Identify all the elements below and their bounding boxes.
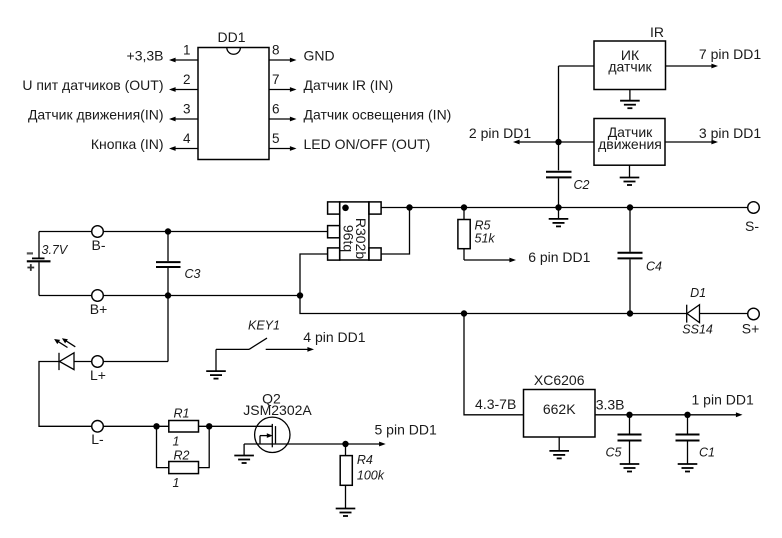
svg-text:R5: R5: [475, 219, 491, 233]
ground under IR sensor: [620, 90, 640, 109]
wire L- to R1: [103, 425, 169, 427]
ground at Q2: [234, 444, 254, 463]
svg-text:+3,3В: +3,3В: [127, 48, 164, 64]
svg-text:7: 7: [272, 72, 280, 87]
svg-text:96tq: 96tq: [341, 225, 357, 252]
transistor Q2: [255, 417, 290, 452]
ground under C5: [620, 464, 640, 472]
pin 6 wire of DD1: [269, 117, 297, 122]
chip U1 R302b body: [328, 202, 382, 260]
led HL1: [59, 353, 74, 370]
pin 8 wire of DD1: [269, 58, 297, 63]
svg-text:1 pin DD1: 1 pin DD1: [692, 392, 754, 408]
svg-text:L-: L-: [91, 431, 104, 447]
svg-text:3.7V: 3.7V: [42, 243, 69, 257]
wire top bus to S-: [381, 207, 748, 209]
svg-text:6: 6: [272, 102, 280, 117]
junction lower bus XC input: [461, 310, 467, 316]
svg-text:IR: IR: [650, 24, 664, 40]
junction C2 line: [555, 139, 561, 145]
pin 1 wire of DD1: [169, 58, 198, 63]
svg-text:R4: R4: [357, 453, 373, 467]
ground under R4: [336, 509, 356, 517]
svg-text:L+: L+: [90, 367, 106, 383]
svg-text:датчик: датчик: [608, 59, 652, 75]
wire battery to B-: [39, 231, 92, 233]
wire L+ to C3 vertical: [103, 361, 168, 363]
junction B+ bus C3: [165, 292, 171, 298]
svg-text:5: 5: [272, 131, 280, 146]
svg-text:1: 1: [173, 476, 180, 490]
svg-text:C5: C5: [606, 446, 622, 460]
terminal B-: [92, 226, 104, 238]
capacitor C4: [618, 208, 643, 314]
svg-text:D1: D1: [690, 286, 706, 300]
pin 1 dot of R302b: [342, 205, 349, 212]
wire C2 vertical: [558, 66, 560, 170]
svg-text:SS14: SS14: [682, 323, 713, 337]
label battery minus: [27, 252, 33, 254]
wire LED anode to L+: [74, 361, 92, 363]
svg-text:движения: движения: [598, 136, 662, 152]
resistor R4: [340, 444, 352, 509]
led light arrow 2: [62, 338, 75, 347]
resistor R1: [169, 421, 199, 433]
svg-text:KEY1: KEY1: [248, 319, 280, 333]
svg-text:R2: R2: [174, 449, 190, 463]
wire Q2 to 5 pin DD1: [346, 442, 386, 447]
junction B+ bus x299: [297, 292, 303, 298]
svg-text:S-: S-: [745, 218, 759, 234]
svg-text:3.3В: 3.3В: [596, 397, 625, 413]
wire motion sensor to 2 pin DD1: [513, 140, 594, 145]
wire battery to B+: [39, 295, 92, 297]
wire XC output to 1 pin DD1: [595, 412, 743, 417]
ground on top bus: [549, 208, 569, 227]
block IR sensor: [594, 41, 666, 90]
svg-text:2 pin DD1: 2 pin DD1: [469, 125, 531, 141]
svg-text:C4: C4: [646, 260, 662, 274]
wire R5 to 6 pin DD1: [464, 258, 516, 263]
wire IR sensor to 7 pin DD1: [666, 64, 719, 69]
ground under KEY1: [206, 349, 226, 378]
junction lower bus C4: [627, 310, 633, 316]
label battery plus: [27, 264, 34, 271]
resistor R2: [169, 462, 199, 474]
wire C3 to L+ vertical: [167, 296, 169, 362]
ground under C1: [678, 464, 698, 472]
junction B- bus C3: [165, 228, 171, 234]
svg-text:DD1: DD1: [217, 29, 245, 45]
ground under motion sensor: [620, 165, 640, 185]
block motion sensor: [594, 119, 665, 166]
svg-text:XC6206: XC6206: [534, 372, 585, 388]
junction top bus C2: [555, 204, 561, 210]
svg-text:4 pin DD1: 4 pin DD1: [303, 329, 365, 345]
junction top bus R5: [461, 204, 467, 210]
wire R302b left-bottom pad link: [300, 254, 328, 296]
svg-text:LED ON/OFF (OUT): LED ON/OFF (OUT): [304, 136, 431, 152]
terminal L+: [92, 356, 104, 368]
pin 5 wire of DD1: [269, 146, 297, 151]
wire B+ bus: [103, 295, 300, 297]
wire R2 left leg: [157, 426, 169, 467]
svg-text:Датчик движения(IN): Датчик движения(IN): [28, 107, 164, 123]
svg-text:JSM2302A: JSM2302A: [243, 402, 312, 418]
pin 3 wire of DD1: [169, 117, 198, 122]
terminal S+: [748, 308, 760, 320]
svg-text:B-: B-: [92, 237, 106, 253]
svg-text:U пит датчиков (OUT): U пит датчиков (OUT): [22, 77, 163, 93]
svg-text:Датчик IR (IN): Датчик IR (IN): [304, 77, 394, 93]
svg-text:100k: 100k: [357, 468, 385, 482]
label R302b 96tq: [341, 218, 370, 259]
svg-text:R1: R1: [174, 407, 190, 421]
junction top bus C4: [627, 204, 633, 210]
terminal L-: [92, 421, 104, 433]
junction XC output C5: [626, 412, 632, 418]
wire B+ junction down to lower bus: [300, 296, 464, 314]
svg-text:6 pin DD1: 6 pin DD1: [528, 249, 590, 265]
svg-text:3 pin DD1: 3 pin DD1: [699, 125, 761, 141]
svg-text:B+: B+: [90, 301, 108, 317]
wire XC input vertical: [464, 314, 524, 415]
junction XC output C1: [684, 412, 690, 418]
svg-text:Кнопка (IN): Кнопка (IN): [91, 136, 164, 152]
svg-text:4: 4: [183, 131, 191, 146]
junction Q2 output: [342, 441, 348, 447]
pin 2 wire of DD1: [169, 87, 198, 92]
svg-text:51k: 51k: [475, 232, 496, 246]
terminal S-: [748, 202, 760, 214]
svg-text:C1: C1: [699, 446, 715, 460]
ic DD1 body: [198, 48, 269, 160]
pin 7 wire of DD1: [269, 87, 297, 92]
battery GB1 3.7V: [27, 232, 51, 296]
wire R2 right leg: [199, 426, 210, 467]
wire LED cathode rail: [39, 362, 92, 427]
svg-text:C2: C2: [574, 178, 590, 192]
junction R1 right: [206, 423, 212, 429]
wire lower bus to S+: [464, 313, 687, 315]
resistor R5: [458, 208, 470, 261]
wire IR sensor left: [559, 65, 595, 67]
svg-text:8: 8: [272, 43, 280, 58]
wire motion sensor to 3 pin DD1: [665, 140, 718, 145]
capacitor C1: [676, 415, 700, 464]
svg-text:662K: 662K: [543, 401, 576, 417]
svg-text:4.3-7В: 4.3-7В: [475, 396, 516, 412]
led light arrow 1: [54, 339, 67, 348]
capacitor C3: [156, 232, 181, 296]
capacitor C2: [546, 172, 572, 208]
wire B- to R302b: [103, 231, 327, 233]
svg-text:5 pin DD1: 5 pin DD1: [375, 422, 437, 438]
regulator XC6206: [524, 390, 596, 438]
capacitor C5: [618, 415, 642, 464]
svg-text:1: 1: [173, 434, 180, 448]
pin 4 wire of DD1: [169, 146, 198, 151]
svg-text:3: 3: [183, 102, 191, 117]
wire R1 to Q2 gate: [199, 425, 273, 427]
svg-text:1: 1: [183, 43, 191, 58]
switch KEY1: [216, 338, 314, 352]
svg-text:7 pin DD1: 7 pin DD1: [699, 46, 761, 62]
svg-text:C3: C3: [185, 267, 201, 281]
svg-text:S+: S+: [742, 321, 760, 337]
junction R1 left: [153, 423, 159, 429]
wire R302b right-bottom pad link: [381, 208, 409, 255]
ground under XC6206: [549, 437, 569, 458]
svg-text:GND: GND: [304, 48, 335, 64]
terminal B+: [92, 290, 104, 302]
svg-text:2: 2: [183, 72, 191, 87]
junction top bus x409: [406, 204, 412, 210]
wire Q2 source-drain row: [244, 443, 345, 445]
diode D1: [687, 305, 748, 323]
svg-text:Датчик освещения (IN): Датчик освещения (IN): [304, 107, 452, 123]
